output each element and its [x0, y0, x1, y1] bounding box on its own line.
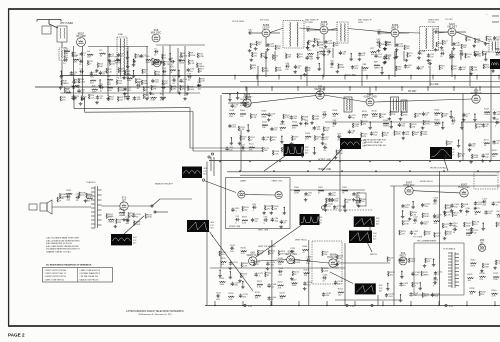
label P-P	[376, 221, 380, 223]
ground	[383, 61, 387, 64]
svg-text:2.2K: 2.2K	[274, 153, 279, 155]
capacitor C73	[231, 104, 239, 109]
resistor R179	[472, 221, 480, 226]
svg-text:1MEG: 1MEG	[319, 44, 325, 46]
wire AGC line rail	[60, 75, 500, 77]
wire	[432, 76, 434, 80]
capacitor C38	[339, 51, 347, 56]
wire tuner drop	[146, 46, 148, 96]
ground	[279, 225, 283, 228]
label P-P	[363, 143, 367, 145]
node junction	[298, 305, 299, 306]
resistor R109	[312, 115, 320, 120]
svg-text:1 VERT OUTPUT PRI 460: 1 VERT OUTPUT PRI 460	[45, 270, 67, 272]
ground	[95, 69, 99, 72]
resistor R133	[401, 111, 409, 116]
wire mid rail	[240, 81, 500, 83]
capacitor C131	[303, 281, 313, 286]
node junction	[99, 79, 100, 80]
svg-text:VOLTAGES TAKEN FROM SOCKET TO: VOLTAGES TAKEN FROM SOCKET TO	[46, 248, 81, 251]
svg-text:R204: R204	[302, 246, 308, 248]
node junction	[474, 113, 475, 114]
capacitor C17	[172, 77, 177, 85]
resistor R39	[64, 88, 71, 93]
label 2ND	[305, 20, 319, 22]
svg-text:22K: 22K	[332, 116, 336, 118]
capacitor C140	[411, 272, 421, 277]
svg-text:→: →	[485, 12, 488, 16]
wire tuner drop	[184, 46, 186, 96]
tube V20 5U4 RECT	[399, 252, 407, 265]
node junction	[300, 75, 301, 76]
capacitor C137	[334, 280, 344, 285]
ground	[106, 97, 110, 100]
resistor R28	[61, 80, 69, 85]
svg-text:B+ LINE: B+ LINE	[430, 84, 439, 86]
node junction	[390, 121, 391, 122]
ground	[377, 49, 381, 52]
capacitor C130	[267, 284, 277, 289]
resistor R240	[492, 290, 498, 298]
ground	[264, 56, 268, 59]
svg-text:22K: 22K	[259, 253, 263, 255]
ground	[126, 56, 130, 59]
svg-text:2.2K: 2.2K	[145, 97, 150, 99]
wire leader from W2	[264, 156, 285, 171]
label P-P	[305, 150, 309, 152]
svg-text:AGC LINE: AGC LINE	[345, 74, 356, 77]
ground	[197, 84, 201, 87]
svg-text:47K: 47K	[249, 149, 253, 151]
capacitor C126	[306, 257, 312, 265]
svg-text:R237: R237	[493, 273, 499, 275]
svg-text:R213: R213	[304, 269, 310, 271]
resistor R116	[240, 135, 247, 140]
resistor R159	[242, 217, 248, 225]
capacitor C113	[420, 221, 429, 226]
wire	[322, 76, 324, 80]
resistor R89	[374, 62, 380, 70]
svg-text:2.2K: 2.2K	[426, 234, 431, 236]
resistor R98	[475, 38, 481, 43]
resistor R93	[471, 66, 478, 71]
capacitor C77	[462, 113, 470, 118]
resistor R161	[318, 187, 324, 195]
ground	[493, 266, 497, 269]
wire leader from W5	[256, 225, 302, 257]
svg-text:12BH7: 12BH7	[240, 180, 247, 182]
tube V11 12BH7 SYNC SEP	[238, 191, 245, 198]
wire leader from W8	[330, 272, 353, 284]
capacitor C24	[161, 84, 166, 92]
wire	[337, 262, 390, 264]
resistor R67	[442, 40, 448, 45]
capacitor C66	[262, 136, 270, 141]
wire	[450, 111, 452, 115]
ground	[440, 46, 444, 49]
resistor R26	[170, 66, 176, 74]
label MIN	[364, 141, 383, 144]
svg-text:22K: 22K	[324, 254, 328, 256]
wire plate lead	[270, 32, 280, 34]
resistor R205	[220, 258, 226, 266]
node junction	[339, 161, 340, 162]
capacitor C133	[239, 294, 249, 299]
wire twinlead bottom	[85, 111, 193, 114]
label HORIZ	[229, 226, 241, 228]
ground	[462, 118, 466, 121]
resistor R185	[466, 229, 472, 237]
wire grid line	[88, 46, 148, 48]
ground	[459, 209, 463, 212]
svg-text:1MEG: 1MEG	[374, 67, 380, 69]
svg-text:220K: 220K	[466, 235, 471, 237]
svg-text:T6 FLYBACK: T6 FLYBACK	[443, 248, 456, 251]
capacitor C139	[398, 258, 408, 263]
wire	[245, 87, 247, 91]
svg-text:TO CRT: TO CRT	[445, 19, 453, 21]
ground	[303, 287, 307, 290]
resistor R209	[293, 259, 301, 264]
wire vert rail	[210, 267, 345, 269]
terminal	[154, 211, 156, 213]
capacitor C146	[431, 293, 441, 298]
resistor R200	[241, 247, 247, 255]
wire	[442, 122, 444, 126]
ground	[423, 264, 427, 267]
resistor R85	[275, 67, 282, 72]
ground	[472, 44, 476, 47]
label HV	[430, 167, 447, 170]
resistor R229	[421, 271, 429, 276]
capacitor C71	[291, 143, 296, 151]
capacitor C74	[244, 103, 253, 108]
ground	[469, 72, 473, 75]
node junction	[461, 122, 462, 123]
capacitor C78	[493, 111, 500, 116]
resistor R151	[484, 139, 490, 147]
wire twinlead top	[74, 108, 190, 109]
node junction	[492, 65, 493, 66]
ground	[383, 47, 387, 50]
resistor R91	[439, 65, 445, 70]
wire	[297, 87, 299, 91]
svg-text:47K: 47K	[362, 136, 366, 138]
tube V2 6U8 MIXER	[151, 29, 162, 42]
resistor R40	[72, 82, 78, 90]
output transformer T4	[91, 186, 102, 228]
label 40V	[211, 222, 215, 224]
svg-text:220K: 220K	[277, 70, 282, 72]
capacitor C145	[409, 292, 419, 297]
resistor R43	[118, 87, 125, 92]
wire twinlead vert	[73, 95, 75, 109]
svg-text:T4 AUDIO: T4 AUDIO	[86, 181, 96, 184]
resistor R9	[189, 52, 196, 57]
svg-text:100K: 100K	[120, 90, 125, 92]
wire	[99, 80, 101, 84]
wire left drop	[206, 162, 208, 306]
capacitor C14	[162, 68, 167, 76]
svg-text:2.2K: 2.2K	[108, 71, 113, 73]
resistor R57	[160, 94, 166, 102]
ground	[322, 53, 326, 56]
node junction	[229, 94, 230, 95]
node junction	[433, 259, 434, 260]
wire row2 top rail	[222, 93, 500, 95]
ground	[380, 71, 384, 74]
capacitor C102	[401, 204, 411, 209]
capacitor C114	[449, 222, 458, 227]
resistor R124	[272, 150, 280, 155]
terminal	[445, 304, 447, 306]
wire	[317, 52, 319, 56]
wire grid lead	[438, 31, 448, 33]
wire cathode lead	[265, 37, 267, 47]
resistor R128	[240, 99, 246, 107]
capacitor C80	[451, 117, 456, 125]
svg-text:C143: C143	[433, 279, 439, 281]
capacitor C136	[322, 274, 328, 282]
ground	[408, 217, 412, 220]
wire	[245, 194, 275, 197]
svg-text:4.7K: 4.7K	[446, 215, 451, 217]
wire leader from W1	[204, 181, 236, 193]
wire	[265, 51, 267, 56]
tube V6 6AL5 DET	[447, 23, 457, 36]
resistor R68	[461, 44, 467, 49]
svg-text:1ST IF GRID: 1ST IF GRID	[232, 21, 244, 23]
wire T3 to V5	[348, 29, 391, 33]
node junction	[366, 75, 367, 76]
label HORIZ	[420, 181, 433, 183]
resistor R114	[292, 122, 298, 130]
resistor R144	[475, 123, 483, 128]
tube V15 5Y3 RECT	[120, 197, 128, 211]
wire stage drop	[323, 51, 325, 77]
wire drop	[490, 69, 492, 161]
ground	[168, 58, 172, 61]
ground	[426, 59, 430, 62]
resistor R12	[87, 60, 93, 65]
label HORIZ LINE 2	[318, 169, 331, 171]
node junction	[281, 136, 282, 137]
capacitor C5	[154, 48, 158, 56]
svg-text:R173: R173	[475, 208, 481, 210]
resistor R126	[336, 150, 344, 155]
resistor R157	[264, 205, 272, 210]
transformer T4	[337, 22, 348, 43]
svg-text:HORIZ HOLD: HORIZ HOLD	[420, 181, 433, 183]
wire	[234, 76, 236, 80]
wire	[300, 76, 302, 80]
capacitor C121	[125, 217, 131, 225]
ground	[313, 152, 317, 155]
wire sound rail	[325, 121, 440, 123]
svg-text:HORIZ LINE: HORIZ LINE	[229, 226, 241, 228]
resistor R195	[145, 214, 153, 219]
resistor R206	[241, 262, 249, 267]
svg-text:R155: R155	[492, 150, 498, 152]
svg-text:HOR AFC: HOR AFC	[403, 184, 414, 187]
svg-text:10K: 10K	[463, 47, 467, 49]
note line 1	[46, 237, 79, 240]
label T4	[86, 181, 96, 184]
resistor R64	[385, 41, 391, 46]
wire tuner drop	[162, 46, 164, 96]
svg-text:R214: R214	[219, 278, 225, 280]
label &#8594;	[485, 12, 488, 16]
capacitor C88	[481, 154, 489, 159]
wire	[127, 61, 129, 65]
svg-text:4.7K: 4.7K	[362, 70, 367, 72]
wire	[133, 71, 135, 75]
wire video rail 2	[193, 150, 262, 152]
svg-text:1MEG: 1MEG	[383, 126, 389, 128]
node junction	[307, 170, 308, 171]
resistor R74	[297, 53, 303, 58]
svg-text:47K: 47K	[153, 89, 157, 91]
svg-text:100K: 100K	[323, 271, 328, 273]
node junction	[443, 170, 444, 171]
label VERT	[258, 230, 269, 232]
resistor R50	[81, 96, 87, 101]
resistor R94	[483, 64, 490, 69]
svg-text:TP 4700: TP 4700	[305, 22, 314, 24]
node junction	[314, 147, 315, 148]
svg-text:R102: R102	[496, 49, 500, 51]
capacitor C72	[323, 144, 328, 152]
label 60&#8776;	[305, 152, 309, 154]
svg-text:VERT LINE: VERT LINE	[258, 230, 269, 232]
wire	[396, 51, 398, 55]
ground	[59, 86, 63, 89]
svg-text:C128: C128	[278, 268, 284, 270]
waveform scope photo W6 vert osc	[354, 216, 375, 227]
capacitor C105	[450, 204, 460, 209]
svg-text:C118: C118	[66, 193, 72, 195]
resistor R117	[248, 136, 255, 141]
svg-text:22K: 22K	[278, 287, 282, 289]
wire drop to row2	[475, 87, 477, 96]
node junction	[133, 59, 134, 60]
svg-text:10K: 10K	[277, 48, 281, 50]
ground	[443, 211, 447, 214]
ground	[72, 85, 76, 88]
wire tuner drop	[82, 46, 84, 96]
transformer T5	[420, 26, 439, 50]
capacitor C52	[305, 56, 314, 61]
table row L2	[45, 273, 67, 275]
svg-text:R176: R176	[434, 217, 440, 219]
wire	[344, 76, 346, 80]
label 40V	[305, 147, 309, 149]
svg-text:C123: C123	[290, 248, 296, 250]
svg-text:C119: C119	[76, 194, 82, 196]
node junction	[270, 305, 271, 306]
wire vertical bus 1	[210, 157, 212, 171]
wire	[451, 50, 453, 55]
svg-text:R130: R130	[372, 110, 378, 112]
resistor R227	[425, 258, 433, 263]
resistor R224	[338, 289, 344, 297]
svg-text:47K: 47K	[255, 298, 259, 300]
capacitor C84	[370, 131, 378, 136]
svg-text:220K: 220K	[190, 55, 195, 57]
capacitor C107	[482, 198, 488, 206]
resistor R24	[142, 69, 148, 74]
ground	[133, 60, 137, 63]
resistor R180	[496, 222, 500, 227]
tube V13 6SN7 HORIZ AFC	[403, 181, 414, 195]
svg-text:R200: R200	[241, 247, 247, 249]
resistor R238	[470, 288, 476, 296]
resistor R35	[135, 78, 142, 83]
resistor R37	[162, 80, 168, 85]
ground	[281, 120, 285, 123]
ground	[266, 48, 270, 51]
ground	[324, 45, 328, 48]
svg-text:R120: R120	[305, 133, 311, 135]
label AGC LINE	[345, 74, 356, 77]
capacitor C90	[252, 204, 257, 212]
svg-text:10K: 10K	[492, 156, 496, 158]
svg-text:R191: R191	[87, 194, 93, 196]
resistor R100	[465, 53, 473, 58]
terminal	[208, 156, 210, 158]
wire video to det	[251, 96, 316, 104]
tube V5 6CB6 3RD IF	[391, 24, 399, 37]
capacitor C2	[108, 53, 115, 58]
capacitor C7	[79, 58, 83, 66]
label 40V	[363, 140, 367, 142]
svg-text:47K: 47K	[292, 127, 296, 129]
wire T2 to V4	[300, 28, 321, 30]
svg-text:7 FILTER CHOKE 210: 7 FILTER CHOKE 210	[80, 276, 98, 278]
resistor R234	[495, 260, 500, 265]
ground	[132, 63, 136, 66]
node junction	[322, 75, 323, 76]
wire plate lead	[399, 32, 409, 34]
phono jack J1	[29, 204, 37, 210]
resistor R25	[154, 71, 160, 76]
wire drop	[308, 240, 310, 306]
capacitor C64	[313, 126, 322, 131]
svg-text:WIDTH: WIDTH	[370, 254, 377, 256]
node junction	[219, 161, 220, 162]
wire drop	[462, 94, 464, 162]
ground	[411, 206, 415, 209]
resistor R104	[240, 110, 246, 118]
label 40V	[451, 149, 455, 151]
node junction	[245, 86, 246, 87]
svg-text:R159: R159	[242, 217, 248, 219]
svg-text:VERT HOLD: VERT HOLD	[295, 240, 307, 242]
svg-text:.01: .01	[497, 39, 500, 41]
svg-text:470K: 470K	[264, 70, 269, 72]
capacitor C57	[474, 53, 482, 58]
ground	[238, 142, 242, 145]
label B+ LINE	[430, 84, 439, 86]
wire local rail	[335, 299, 400, 301]
resistor R92	[451, 65, 457, 70]
note line 2	[46, 239, 80, 242]
wire	[307, 42, 309, 46]
svg-text:2.2K: 2.2K	[447, 234, 452, 236]
resistor R146	[382, 132, 390, 137]
capacitor C58	[267, 113, 275, 118]
svg-text:4.7K: 4.7K	[228, 299, 233, 301]
